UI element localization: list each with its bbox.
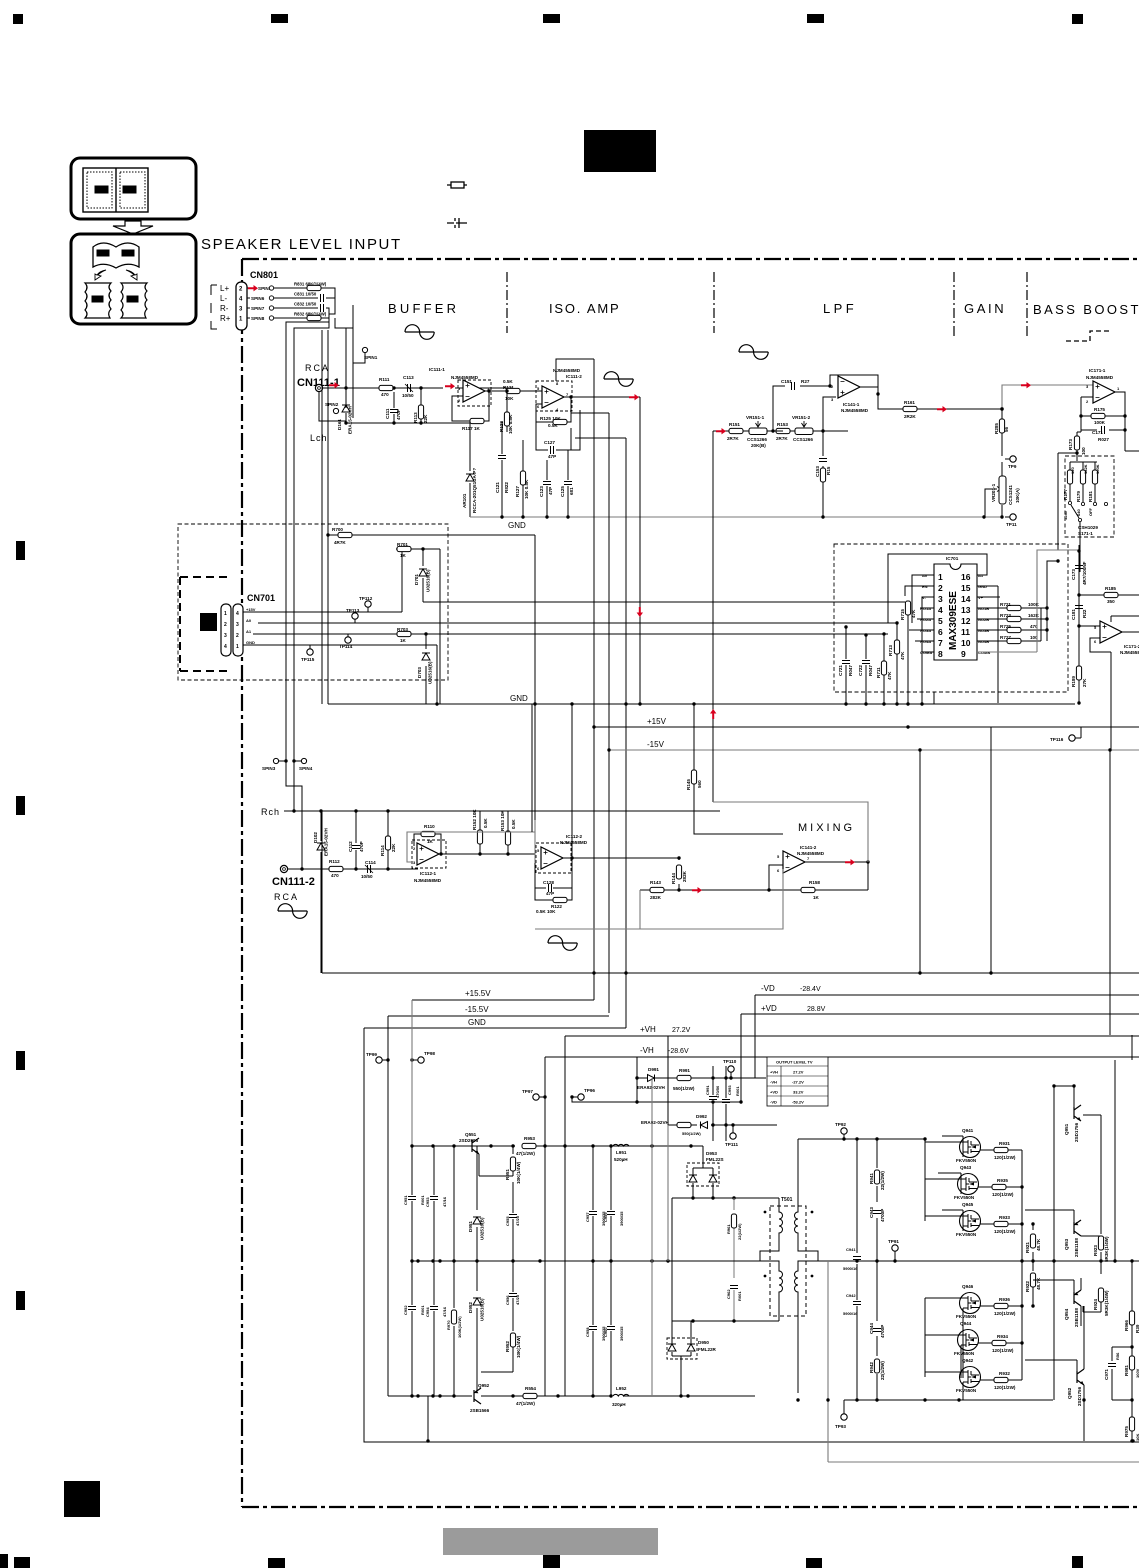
svg-text:TP91: TP91	[888, 1239, 899, 1244]
wire Rch bus	[284, 810, 720, 812]
svg-text:10/50: 10/50	[402, 393, 414, 398]
wires CN801 rows	[247, 288, 353, 775]
BORDER dash-dot	[242, 259, 1139, 1507]
svg-text:1K: 1K	[813, 895, 820, 900]
svg-text:AR101: AR101	[462, 493, 467, 508]
svg-text:GAIN: GAIN	[964, 301, 1006, 316]
svg-text:SPIN1: SPIN1	[364, 355, 378, 360]
svg-text:22(1/2W): 22(1/2W)	[880, 1361, 885, 1380]
svg-text:GND: GND	[246, 640, 255, 645]
svg-text:ERA15-02VH: ERA15-02VH	[348, 405, 353, 434]
dashed enclosure	[178, 524, 448, 680]
svg-text:U02516(B): U02516(B)	[426, 569, 431, 592]
svg-text:A0: A0	[246, 618, 252, 623]
legend component symbols top middle	[447, 182, 467, 228]
svg-text:D992: D992	[696, 1114, 707, 1119]
svg-text:R711: R711	[876, 667, 881, 678]
caps C952/R001	[412, 1261, 434, 1396]
diode D991 row	[637, 1057, 766, 1102]
svg-text:Q945: Q945	[962, 1202, 974, 1207]
svg-text:6: 6	[938, 627, 943, 637]
diode D992 row	[668, 1036, 777, 1125]
verticals from rails right	[920, 727, 1132, 1060]
svg-text:2R2K: 2R2K	[904, 414, 916, 419]
caps C958/C960 lower	[593, 1261, 611, 1396]
wire opamp output	[485, 390, 529, 392]
svg-text:6: 6	[537, 404, 540, 409]
svg-text:TP96: TP96	[584, 1088, 595, 1093]
svg-text:R961: R961	[726, 1224, 731, 1234]
RCA jack CN111-2	[280, 865, 287, 872]
capacitor C125	[568, 410, 580, 517]
resistor R723	[1007, 616, 1021, 621]
svg-text:R144: R144	[671, 873, 676, 884]
arrow at CN111-1	[329, 382, 339, 388]
wire right bus	[1041, 561, 1058, 641]
resistor R153	[776, 428, 790, 433]
MOSFET Q946	[960, 1293, 981, 1314]
svg-text:L952: L952	[616, 1386, 627, 1391]
svg-text:R715: R715	[900, 609, 905, 620]
svg-text:R177: R177	[1063, 489, 1068, 500]
resistor R941 / cap C943	[876, 1139, 878, 1261]
capacitor C971	[1112, 1347, 1132, 1400]
pot VR151-1	[749, 428, 767, 435]
wire -15.5V	[388, 1015, 609, 1017]
black key block	[200, 613, 217, 631]
resistor R701	[396, 549, 440, 704]
svg-text:D701: D701	[414, 574, 419, 585]
svg-text:C942: C942	[846, 1293, 856, 1298]
wire vertical x609	[571, 411, 609, 1013]
svg-text:TP115: TP115	[301, 657, 315, 662]
svg-text:2SD1756: 2SD1756	[1077, 1386, 1082, 1406]
capacitor C127	[536, 422, 571, 450]
svg-text:R181: R181	[1088, 491, 1093, 502]
svg-text:10K 0.5K: 10K 0.5K	[524, 479, 529, 499]
svg-text:C125: C125	[560, 486, 565, 497]
svg-text:TP99: TP99	[366, 1052, 377, 1057]
svg-text:BUFFER: BUFFER	[388, 301, 459, 316]
svg-text:1: 1	[236, 644, 239, 650]
svg-text:0.5K: 0.5K	[503, 379, 513, 384]
wires between	[743, 430, 848, 432]
test point TP112	[365, 601, 371, 607]
resistor R143	[640, 889, 679, 891]
schematic dash-dot border	[242, 258, 1139, 260]
svg-text:TP97: TP97	[522, 1089, 533, 1094]
svg-text:0.5K: 0.5K	[483, 818, 488, 828]
svg-text:R+: R+	[220, 314, 231, 323]
svg-text:R127: R127	[515, 486, 520, 497]
wire IC111-2 output	[564, 396, 640, 398]
primary winding	[760, 1198, 783, 1321]
svg-text:R-: R-	[220, 304, 229, 313]
BOOK LEGEND ICONS	[71, 158, 196, 324]
svg-text:27.2V: 27.2V	[672, 1027, 691, 1034]
capacitor C114	[368, 865, 371, 873]
svg-text:Q951: Q951	[1064, 1123, 1069, 1135]
wire A0 row	[258, 622, 897, 624]
svg-text:C831 10/50: C831 10/50	[294, 292, 317, 297]
svg-text:C958: C958	[585, 1327, 590, 1337]
svg-text:VR201-1: VR201-1	[991, 483, 996, 502]
resistor R114	[387, 811, 389, 869]
svg-text:0.5K 10K: 0.5K 10K	[536, 909, 556, 914]
svg-text:12: 12	[961, 616, 971, 626]
diode D951	[476, 1146, 478, 1261]
resistor R981	[1131, 1347, 1133, 1400]
test point TP115	[307, 649, 313, 655]
svg-text:2: 2	[938, 583, 943, 593]
svg-text:2: 2	[236, 633, 239, 639]
svg-text:27.2V: 27.2V	[793, 1070, 804, 1075]
svg-text:C721: C721	[838, 665, 843, 676]
svg-text:0.5K: 0.5K	[548, 423, 558, 428]
capacitor C123	[546, 460, 548, 517]
wire jogs	[286, 761, 302, 869]
svg-text:1K: 1K	[427, 839, 434, 844]
resistor R703	[397, 631, 411, 636]
long bottom wire y972	[322, 972, 1139, 974]
svg-text:3900/35: 3900/35	[619, 1211, 624, 1226]
svg-text:CCS1241: CCS1241	[1008, 485, 1013, 505]
svg-text:IC701: IC701	[946, 556, 959, 561]
rail drops	[594, 973, 755, 1102]
svg-text:R727: R727	[1000, 635, 1011, 640]
wire pins left	[897, 575, 934, 704]
svg-text:3: 3	[236, 622, 239, 628]
svg-text:2SB1566: 2SB1566	[470, 1408, 490, 1413]
svg-text:R112: R112	[329, 859, 340, 864]
svg-text:ISO. AMP: ISO. AMP	[549, 301, 620, 316]
pot VR201-1 chain	[984, 409, 1010, 517]
svg-text:14: 14	[961, 594, 971, 604]
wire +VD down	[740, 1101, 742, 1103]
svg-text:Q941: Q941	[962, 1128, 974, 1133]
feedback loop R117	[452, 391, 489, 421]
svg-text:-15V: -15V	[647, 740, 665, 749]
svg-text:Q952: Q952	[478, 1383, 490, 1388]
test point TP97	[533, 1094, 539, 1100]
svg-text:R027: R027	[1098, 437, 1109, 442]
svg-text:ERA15-02VH: ERA15-02VH	[324, 827, 329, 856]
svg-text:5R3K(1/4W): 5R3K(1/4W)	[1104, 1236, 1109, 1262]
svg-text:C121: C121	[495, 482, 500, 493]
svg-text:2: 2	[224, 622, 227, 628]
caps C991 C993	[713, 1066, 726, 1141]
svg-text:100V: 100V	[1135, 1368, 1139, 1378]
svg-text:C991: C991	[705, 1085, 710, 1095]
svg-text:+VH: +VH	[770, 1070, 778, 1075]
svg-text:A1: A1	[246, 629, 252, 634]
svg-text:R975: R975	[1124, 1426, 1129, 1437]
cap C956	[512, 1261, 514, 1362]
svg-text:7: 7	[807, 856, 810, 861]
svg-text:R921: R921	[1025, 1242, 1030, 1253]
svg-text:D953: D953	[706, 1151, 717, 1156]
svg-text:Rch: Rch	[261, 807, 280, 817]
svg-text:SPEAKER LEVEL INPUT: SPEAKER LEVEL INPUT	[201, 236, 402, 253]
wire +15V rail	[594, 726, 1139, 728]
resistor R189	[1076, 666, 1081, 680]
svg-text:R185: R185	[1105, 586, 1116, 591]
registration marks and print blocks	[13, 14, 23, 24]
svg-text:-VH: -VH	[770, 1080, 777, 1085]
svg-text:C944: C944	[869, 1323, 874, 1334]
svg-text:NJM4558MD: NJM4558MD	[553, 368, 581, 373]
connector CN701	[221, 604, 231, 656]
svg-text:R981: R981	[1124, 1365, 1129, 1376]
node SPIN1	[362, 347, 367, 352]
svg-text:U02516(B): U02516(B)	[480, 1298, 485, 1321]
resistor R721	[1007, 605, 1021, 610]
resistor R113	[418, 405, 423, 419]
svg-text:470/50: 470/50	[715, 1085, 720, 1098]
svg-text:R924: R924	[1093, 1299, 1098, 1310]
svg-text:TP9: TP9	[1008, 464, 1017, 469]
svg-text:TP112: TP112	[359, 596, 373, 601]
capacitor C832	[294, 302, 317, 307]
resistor R970	[453, 1146, 455, 1396]
svg-text:FKV550N: FKV550N	[956, 1388, 977, 1393]
svg-text:IC111-2: IC111-2	[566, 374, 582, 379]
diode D703	[425, 634, 427, 704]
svg-text:470P: 470P	[396, 409, 401, 420]
svg-text:C959: C959	[603, 1212, 608, 1222]
svg-text:5: 5	[938, 616, 943, 626]
node SPIN2	[333, 408, 338, 413]
svg-text:R933: R933	[999, 1215, 1010, 1220]
svg-text:-53.2V: -53.2V	[792, 1100, 804, 1105]
svg-text:IC171-2: IC171-2	[1124, 644, 1139, 649]
transistor Q951	[1074, 1105, 1081, 1121]
capacitor C171	[1102, 426, 1105, 434]
resistor R923	[1100, 1252, 1102, 1261]
svg-text:C955: C955	[505, 1216, 510, 1226]
svg-text:C112: C112	[348, 841, 353, 852]
svg-text:CN111-2: CN111-2	[272, 876, 315, 888]
svg-text:R700: R700	[332, 527, 343, 532]
cap C941	[856, 1139, 858, 1268]
svg-text:4700P: 4700P	[880, 1325, 885, 1338]
svg-text:GND: GND	[508, 521, 526, 530]
svg-text:TP92: TP92	[835, 1122, 846, 1127]
wire A1 row	[253, 633, 888, 635]
svg-text:8: 8	[556, 381, 559, 386]
transistor Q551	[472, 1138, 479, 1154]
svg-text:47K: 47K	[900, 651, 905, 660]
right bus verticals	[1021, 1150, 1023, 1380]
svg-text:R39: R39	[1135, 1324, 1139, 1333]
svg-text:C127: C127	[544, 440, 555, 445]
center taps	[704, 1260, 760, 1262]
resistor R123	[504, 412, 509, 426]
svg-text:VR151-2: VR151-2	[792, 415, 811, 420]
svg-text:GND: GND	[468, 1018, 486, 1027]
secondary winding	[795, 1139, 818, 1393]
svg-text:R56: R56	[1115, 1352, 1120, 1360]
wire feedback	[830, 375, 878, 394]
wire COMB gray	[977, 550, 1080, 652]
svg-text:47(1/2W): 47(1/2W)	[516, 1151, 535, 1156]
svg-text:640: 640	[1076, 509, 1081, 516]
svg-text:10K 0.5K: 10K 0.5K	[508, 414, 513, 434]
svg-text:120(1/2W): 120(1/2W)	[994, 1311, 1016, 1316]
svg-text:+15.5V: +15.5V	[465, 989, 491, 998]
column caps to GND: capacitor C121/R822	[501, 421, 503, 517]
outer boundary	[364, 1028, 1139, 1442]
svg-text:R713: R713	[888, 645, 893, 656]
svg-text:9: 9	[961, 649, 966, 659]
resistor R700	[338, 532, 352, 537]
svg-text:-VD: -VD	[761, 984, 775, 993]
bottom rail right	[844, 1399, 1053, 1401]
svg-text:-28.4V: -28.4V	[800, 986, 821, 993]
svg-text:C993: C993	[727, 1085, 732, 1095]
svg-text:D952: D952	[468, 1302, 473, 1313]
svg-text:RCA: RCA	[274, 892, 299, 902]
svg-text:IC111-1: IC111-1	[429, 367, 445, 372]
svg-text:4R7K: 4R7K	[334, 540, 346, 545]
svg-text:RCCA-201Q51UA-P?: RCCA-201Q51UA-P?	[472, 468, 477, 513]
svg-text:R173: R173	[1068, 439, 1073, 450]
svg-text:47K: 47K	[911, 609, 916, 618]
test point TP116	[1069, 735, 1075, 741]
svg-text:22K: 22K	[391, 843, 396, 852]
svg-text:520µH: 520µH	[614, 1157, 628, 1162]
feedback R125	[536, 397, 571, 422]
svg-text:20K(B): 20K(B)	[751, 443, 766, 448]
svg-text:22(1/2W): 22(1/2W)	[880, 1171, 885, 1190]
svg-text:R152 10K: R152 10K	[472, 809, 477, 830]
svg-text:10: 10	[961, 638, 971, 648]
resistor R285	[999, 419, 1004, 433]
svg-text:FKV550N: FKV550N	[954, 1351, 975, 1356]
wire y1441 dots	[426, 1439, 429, 1442]
svg-text:IC171-1: IC171-1	[1089, 368, 1106, 373]
svg-text:OFF: OFF	[1088, 507, 1093, 516]
svg-text:681: 681	[569, 487, 574, 495]
svg-text:R932: R932	[999, 1371, 1010, 1376]
capacitor C112	[355, 811, 357, 869]
svg-text:1: 1	[224, 611, 227, 617]
svg-text:11: 11	[961, 627, 970, 637]
rail bottom y1396	[388, 1395, 755, 1397]
svg-text:100K(1/2W): 100K(1/2W)	[457, 1316, 462, 1338]
svg-text:FKV550N: FKV550N	[956, 1158, 977, 1163]
arrow down x640	[637, 607, 643, 617]
test point TP9	[1010, 456, 1016, 462]
svg-text:R703: R703	[397, 627, 408, 632]
svg-text:470: 470	[331, 873, 339, 878]
svg-text:C943: C943	[869, 1207, 874, 1218]
svg-text:10K(1/4W): 10K(1/4W)	[516, 1161, 521, 1184]
svg-text:NJM4558M: NJM4558M	[1120, 650, 1139, 655]
cap C955	[512, 1182, 514, 1261]
svg-text:10K: 10K	[1135, 1434, 1139, 1441]
svg-text:VR151-1: VR151-1	[746, 415, 765, 420]
svg-text:NJM4558MD: NJM4558MD	[414, 878, 442, 883]
page legend book icons	[71, 158, 196, 219]
svg-text:C951: C951	[403, 1195, 408, 1205]
svg-text:R001: R001	[737, 1291, 742, 1301]
svg-text:C173: C173	[1071, 569, 1076, 580]
svg-text:MIXING: MIXING	[798, 822, 855, 834]
svg-text:R125 10K: R125 10K	[540, 416, 561, 421]
svg-text:4: 4	[236, 611, 239, 617]
svg-text:D951: D951	[468, 1221, 473, 1232]
wire LPF input riser x713	[712, 431, 714, 802]
svg-text:+VD: +VD	[761, 1004, 777, 1013]
svg-text:S171-1: S171-1	[1078, 531, 1093, 536]
riser to C151/R27	[773, 386, 836, 431]
svg-text:C114: C114	[365, 860, 376, 865]
svg-text:D161: D161	[337, 419, 342, 430]
svg-text:R936: R936	[999, 1297, 1010, 1302]
svg-text:CCS1266: CCS1266	[793, 437, 813, 442]
svg-text:4700P: 4700P	[880, 1209, 885, 1222]
svg-text:TP11: TP11	[1006, 522, 1017, 527]
svg-text:R285: R285	[994, 423, 999, 434]
svg-text:47P: 47P	[548, 454, 556, 459]
RCA jack CN111-1	[315, 384, 322, 391]
resistor R152	[479, 811, 481, 854]
op-amp IC141-1	[838, 376, 860, 398]
wire vertical x640 IC111-2 out down	[639, 397, 641, 703]
test point TP93	[841, 1414, 847, 1420]
output level table	[767, 1057, 828, 1106]
MOSFET Q942	[960, 1367, 981, 1388]
svg-text:R153 10K: R153 10K	[500, 810, 505, 831]
svg-text:R189: R189	[1071, 676, 1076, 687]
svg-text:R931: R931	[999, 1141, 1010, 1146]
wires pins right to resistors	[977, 608, 1047, 641]
svg-text:8: 8	[938, 649, 943, 659]
svg-text:3: 3	[938, 594, 943, 604]
svg-text:R001: R001	[735, 1086, 740, 1096]
wire y1102	[578, 1101, 741, 1103]
test point TP92	[841, 1128, 847, 1134]
svg-text:NJM4558MD: NJM4558MD	[560, 840, 588, 845]
svg-text:10/50: 10/50	[361, 874, 373, 879]
svg-text:-VH: -VH	[640, 1046, 654, 1055]
wire Rch input	[288, 868, 418, 870]
feedback R110	[414, 834, 441, 854]
transistor Q952	[474, 1388, 481, 1404]
wire SPIN1 stem	[353, 353, 365, 363]
svg-text:22(1/2W): 22(1/2W)	[737, 1223, 742, 1240]
rail mid y1261	[412, 1260, 704, 1262]
resistor R952	[510, 1333, 515, 1347]
svg-text:IC141-2: IC141-2	[800, 845, 817, 850]
svg-text:4: 4	[938, 605, 943, 615]
svg-text:C960: C960	[603, 1327, 608, 1337]
svg-text:282K: 282K	[682, 870, 687, 882]
svg-text:R941: R941	[869, 1173, 874, 1184]
inductor L951	[613, 1144, 629, 1146]
svg-text:R22: R22	[1082, 609, 1087, 618]
svg-text:NJM4558MD: NJM4558MD	[1086, 375, 1114, 380]
resistor R921	[1032, 1224, 1034, 1261]
capacitor C831	[294, 292, 317, 297]
speaker input bracket	[211, 285, 217, 329]
svg-text:5900/16: 5900/16	[843, 1266, 858, 1271]
svg-text:TP116: TP116	[1050, 737, 1064, 742]
svg-text:100K: 100K	[1094, 420, 1106, 425]
svg-text:47K: 47K	[887, 671, 892, 680]
svg-text:47/25: 47/25	[515, 1294, 520, 1305]
